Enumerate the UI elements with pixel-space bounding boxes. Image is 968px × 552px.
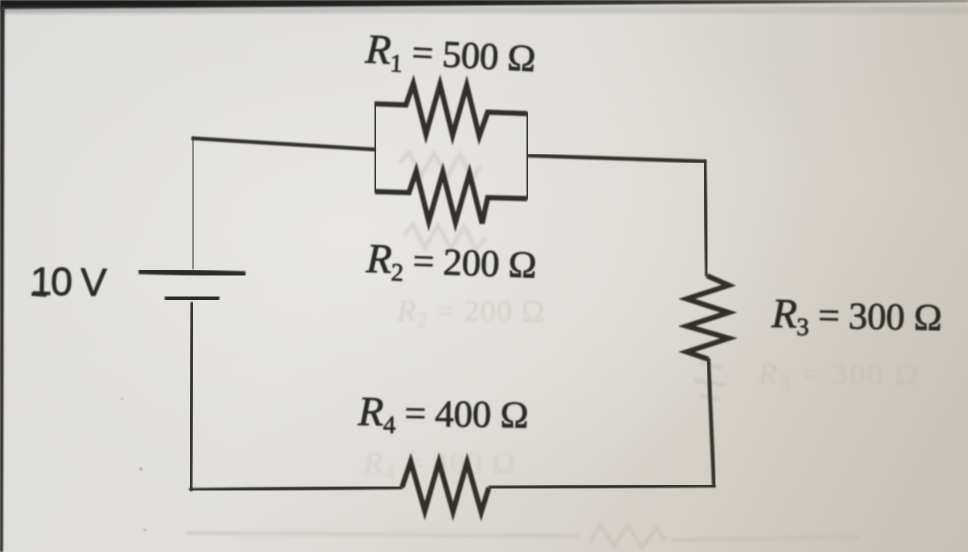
wire: left vertical (battery - to bottom rail) xyxy=(191,302,193,491)
label: R4 = 400 ohm xyxy=(357,388,529,441)
node A: parallel box left rail xyxy=(373,102,378,192)
resistor R2 xyxy=(375,171,527,223)
svg-text:10 V: 10 V xyxy=(30,260,108,306)
wire: top horizontal left segment xyxy=(191,138,375,149)
label: R1 = 500 ohm xyxy=(363,25,536,84)
wire: bottom horizontal right segment xyxy=(489,486,716,488)
svg-text:R3 = 300 Ω: R3 = 300 Ω xyxy=(770,290,942,344)
svg-text:R2 = 200 Ω: R2 = 200 Ω xyxy=(365,235,538,291)
svg-text:R2 = 200 Ω: R2 = 200 Ω xyxy=(396,293,545,332)
battery V1 short plate (-) xyxy=(165,297,220,299)
node B: parallel box right rail xyxy=(525,112,530,200)
wire: top horizontal right segment xyxy=(527,156,706,162)
resistor R4 xyxy=(402,461,489,512)
wire: right vertical lower xyxy=(708,358,714,487)
resistor R3 xyxy=(687,276,729,359)
resistor R1 xyxy=(375,84,527,137)
wire: right vertical upper xyxy=(705,160,707,277)
wire: top-left vertical (battery + to top rail) xyxy=(191,137,195,269)
label: R3 = 300 ohm xyxy=(770,290,942,344)
label: 10 V source value xyxy=(30,260,108,306)
svg-text:R3 = 300 Ω: R3 = 300 Ω xyxy=(757,356,920,395)
wire: bottom horizontal left segment xyxy=(189,487,403,490)
label: R2 = 200 ohm xyxy=(365,235,538,291)
battery V1 long plate (+) xyxy=(139,271,246,274)
svg-text:R4 = 400 Ω: R4 = 400 Ω xyxy=(357,388,529,441)
svg-text:R1 = 500 Ω: R1 = 500 Ω xyxy=(363,25,536,84)
